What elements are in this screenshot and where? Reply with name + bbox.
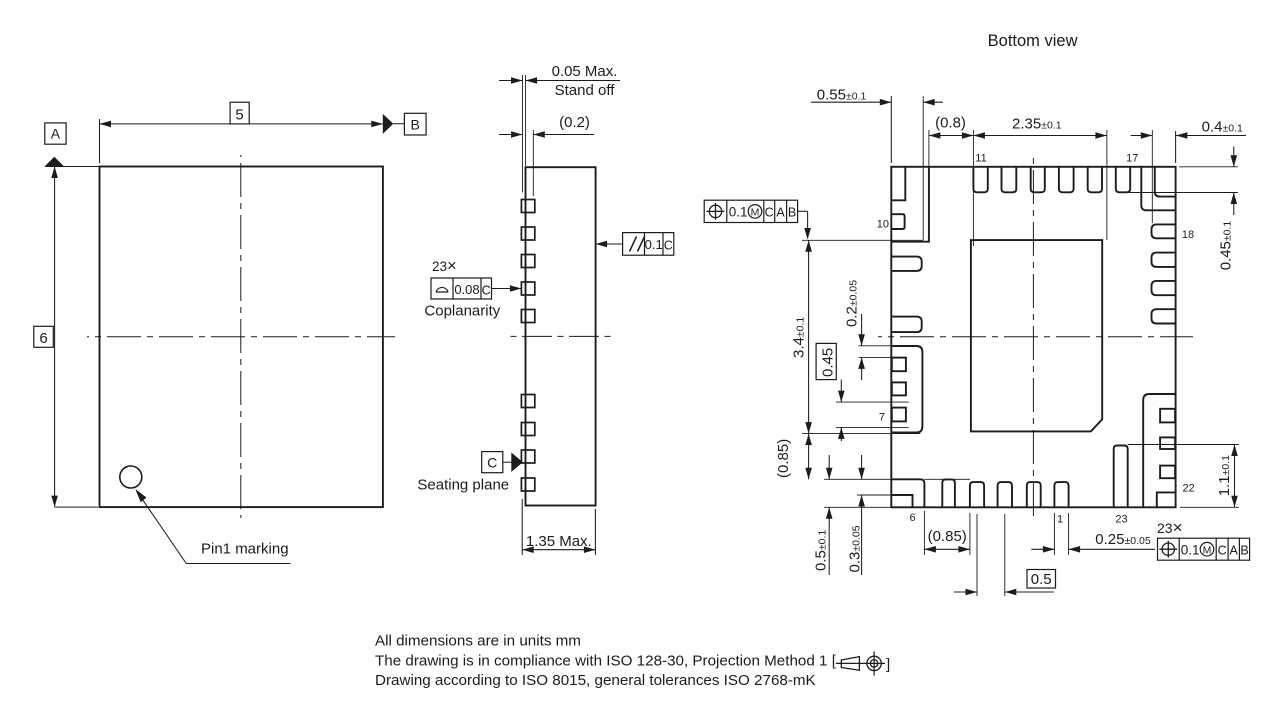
svg-text:A: A (51, 126, 61, 142)
stand off extension lines (523, 75, 526, 193)
dimension 1.35 Max. (522, 499, 595, 555)
svg-text:0.45: 0.45 (819, 348, 836, 377)
right edge pins 18-21 (slots) (1152, 224, 1176, 323)
dimension 0.45 right (1129, 147, 1238, 271)
dimension 5 (width) (100, 102, 383, 163)
right block square a (1160, 409, 1175, 423)
svg-text:0.1: 0.1 (645, 237, 663, 252)
svg-text:22: 22 (1183, 483, 1195, 495)
notes text (375, 633, 837, 689)
top view vertical centerline (240, 155, 242, 518)
svg-text:0.5: 0.5 (1031, 571, 1052, 588)
dimension 0.5 boxed bottom (954, 514, 1056, 596)
svg-text:23×: 23× (432, 257, 457, 275)
svg-text:B: B (1240, 543, 1248, 557)
svg-text:Drawing according to ISO 8015,: Drawing according to ISO 8015, general t… (375, 672, 816, 689)
bottom view horizontal centerline (878, 336, 1193, 338)
top view horizontal centerline (87, 336, 395, 338)
svg-text:18: 18 (1182, 229, 1194, 241)
pin 6 inner step (891, 495, 912, 507)
svg-text:C: C (765, 206, 774, 220)
left edge slot a (891, 257, 921, 271)
svg-text:All dimensions are in units mm: All dimensions are in units mm (375, 633, 581, 650)
top edge pins 11-16 (slots) (973, 167, 1130, 193)
svg-text:0.1: 0.1 (729, 205, 748, 220)
top-left corner notch (891, 167, 905, 200)
dimension 0.25 bottom (1031, 513, 1155, 555)
dimension 6 (height) (34, 167, 99, 508)
bottom-right block (pin 22 pad) (1143, 394, 1175, 507)
dimension 0.55 (811, 87, 943, 241)
dimension (0.85) left (775, 434, 970, 480)
svg-text:C: C (482, 284, 491, 298)
svg-text:Coplanarity: Coplanarity (424, 303, 500, 320)
dimension 0.3 left (847, 455, 892, 575)
svg-text:Seating plane: Seating plane (417, 477, 509, 494)
right block square b (1160, 437, 1175, 449)
right block square c (1160, 466, 1175, 479)
bottom-left corner pin 6 (891, 479, 924, 507)
exposed pad (971, 240, 1102, 431)
svg-text:1: 1 (1057, 514, 1063, 526)
pin1 marking circle (120, 466, 142, 488)
svg-text:0.08: 0.08 (454, 282, 479, 297)
svg-text:(0.85): (0.85) (775, 439, 792, 478)
bottom view title (988, 32, 1078, 50)
svg-text:17: 17 (1126, 153, 1138, 165)
bottom edge pins 1-5 (slots) (942, 479, 1068, 507)
pin 7 square (892, 408, 906, 422)
svg-text:0.05 Max.: 0.05 Max. (552, 63, 618, 80)
side view centerline (510, 335, 613, 337)
top-left corner pin outline (891, 167, 929, 242)
coplanarity callout 23x 0.08 C (424, 257, 521, 320)
svg-text:Bottom view: Bottom view (988, 32, 1078, 50)
top view package outline (100, 167, 383, 508)
svg-text:1.35 Max.: 1.35 Max. (526, 533, 592, 550)
svg-text:]: ] (886, 656, 890, 673)
svg-text:Pin1 marking: Pin1 marking (201, 541, 289, 558)
bottom view vertical centerline (1032, 156, 1034, 516)
side view leads (521, 200, 534, 492)
svg-text:C: C (664, 239, 673, 253)
side view body outline (526, 167, 596, 505)
svg-text:The drawing is in compliance w: The drawing is in compliance with ISO 12… (375, 652, 837, 669)
svg-text:(0.2): (0.2) (559, 114, 590, 131)
pin 9 square (892, 358, 906, 372)
datum A (45, 123, 66, 166)
svg-text:5: 5 (235, 107, 243, 124)
svg-text:23×: 23× (1157, 518, 1183, 537)
svg-text:11: 11 (975, 153, 986, 165)
svg-text:(0.8): (0.8) (935, 115, 966, 132)
dimension (0.2) (499, 114, 594, 196)
svg-text:A: A (1230, 543, 1239, 557)
svg-text:0.1: 0.1 (1181, 542, 1200, 557)
svg-text:7: 7 (879, 412, 885, 424)
left edge slot b (891, 317, 921, 333)
svg-text:Stand off: Stand off (555, 82, 616, 99)
dimension 0.2 left (844, 280, 892, 380)
datum C seating plane (417, 452, 523, 494)
dimension 0.05 Max. stand off (499, 63, 620, 99)
svg-text:(0.85): (0.85) (928, 528, 967, 545)
position tolerance frame right with 23x (1157, 518, 1250, 560)
svg-text:6: 6 (909, 512, 915, 524)
parallelism callout // 0.1 C (596, 233, 674, 256)
top-right corner pin 17 (L strip) (1141, 167, 1175, 211)
svg-text:6: 6 (39, 330, 47, 347)
left block (pins 7-9 pad) (891, 346, 922, 433)
position tolerance frame left (704, 200, 811, 239)
dimension 0.5 left (813, 455, 892, 575)
svg-text:B: B (411, 116, 420, 132)
right block inner step (1157, 492, 1176, 507)
svg-text:A: A (776, 206, 785, 220)
svg-text:C: C (487, 455, 497, 471)
dimension 3.4 left (791, 240, 924, 433)
pin 23 slot (1114, 446, 1128, 508)
bottom view package outline (891, 167, 1175, 508)
pin 10 slot (891, 214, 904, 229)
first angle projection symbol (836, 651, 890, 675)
svg-text:10: 10 (877, 219, 889, 231)
dimension 1.1 right (1128, 445, 1239, 508)
dimension 0.45 boxed left (816, 343, 909, 441)
dimension (0.85) bottom (924, 511, 970, 555)
dimension 0.4 (1131, 119, 1246, 224)
svg-text:B: B (788, 206, 796, 220)
pin1 marking leader and label (135, 489, 290, 564)
datum B (383, 113, 426, 135)
svg-text:23: 23 (1115, 514, 1127, 526)
pin 8 square (892, 382, 906, 395)
svg-text:C: C (1218, 543, 1227, 557)
dimension (0.8) (929, 115, 974, 167)
dimension 2.35 (973, 116, 1107, 247)
svg-text:M: M (751, 207, 760, 219)
svg-text:M: M (1203, 545, 1212, 557)
pin number labels (877, 153, 1195, 526)
